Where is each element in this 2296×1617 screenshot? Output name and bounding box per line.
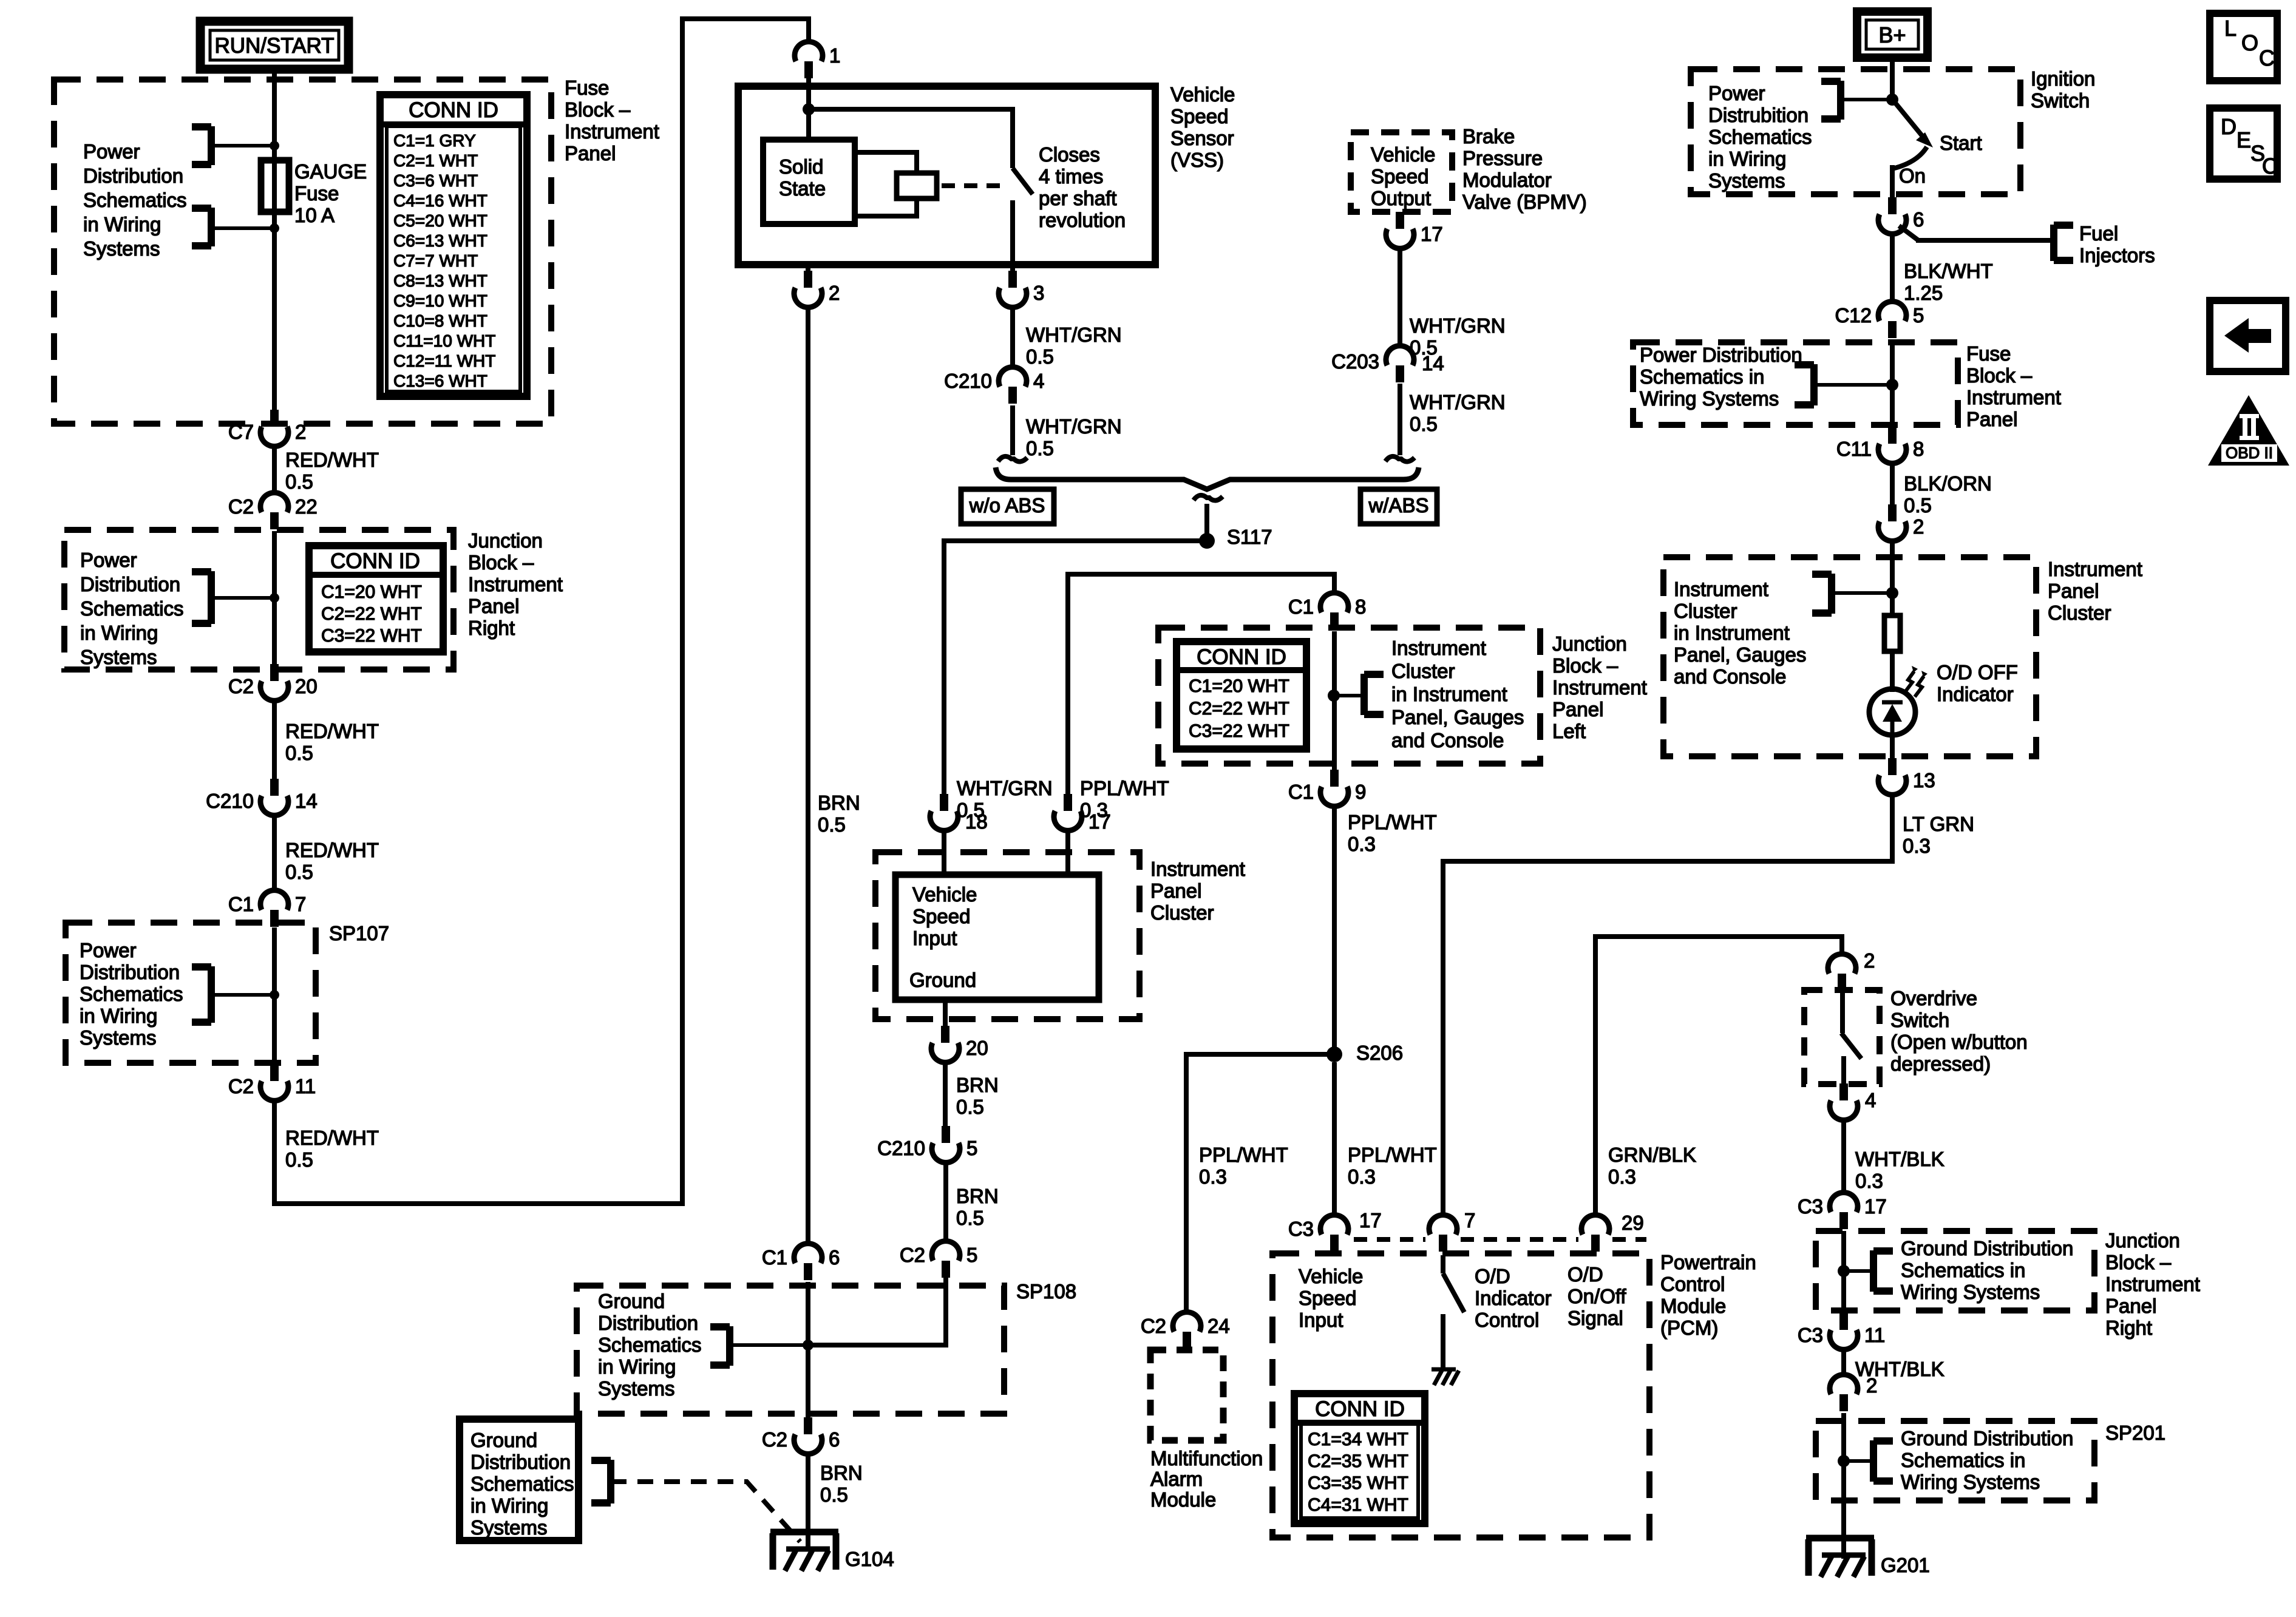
svg-text:Instrument: Instrument [2105, 1273, 2200, 1295]
svg-text:S206: S206 [1356, 1042, 1403, 1064]
svg-text:Fuse: Fuse [565, 76, 609, 99]
connector cluster pin 18 [930, 794, 988, 833]
svg-text:Panel: Panel [1966, 408, 2017, 430]
svg-text:and Console: and Console [1391, 729, 1504, 751]
connector C3 pin 17 (junction right) [1798, 1193, 1887, 1229]
wire label BLK/ORN 0.5 [1904, 472, 1992, 517]
svg-text:in Wiring: in Wiring [83, 213, 161, 236]
svg-text:O/D: O/D [1475, 1265, 1510, 1287]
connector C210 pin 14 [206, 779, 318, 815]
label Power Distribution Schematics (junction block) [80, 549, 184, 668]
label Brake Pressure Modulator Valve (BPMV) [1462, 125, 1587, 213]
fuse GAUGE 10 A [261, 160, 367, 226]
wire stub VSS pin2 [806, 265, 810, 274]
svg-text:9: 9 [1355, 781, 1366, 803]
wire label BRN 0.5 (1) [818, 792, 860, 836]
connector C3 pin 17 (PCM) [1288, 1215, 1348, 1252]
svg-text:C11: C11 [1836, 438, 1872, 460]
svg-text:Start: Start [1940, 132, 1982, 154]
connector C203 pin 14 [1331, 346, 1444, 382]
svg-text:0.5: 0.5 [285, 1148, 313, 1171]
wire C2-C210 [272, 700, 277, 782]
VSS coil [855, 152, 937, 216]
wire label WHT/GRN 0.5 (1) [1026, 324, 1122, 368]
wire C2-11 down right and up to VSS pin 1 [274, 19, 809, 1204]
svg-text:Multifunction: Multifunction [1150, 1447, 1263, 1470]
svg-text:On: On [1899, 164, 1926, 187]
wire VSS pin1 to solid state [806, 78, 811, 141]
fuse block - instrument panel dashed box [54, 80, 551, 424]
label Instrument Cluster in Instrument Panel Gauges and Console (right) [1674, 578, 1806, 688]
connector C11 pin 8 [1836, 427, 1924, 463]
svg-text:11: 11 [295, 1075, 316, 1097]
svg-text:C5=20 WHT: C5=20 WHT [393, 211, 487, 230]
svg-text:Control: Control [1660, 1273, 1725, 1295]
connector cluster pin 2 [1878, 504, 1924, 541]
svg-text:WHT/GRN: WHT/GRN [1026, 324, 1122, 346]
svg-text:Vehicle: Vehicle [1170, 83, 1235, 106]
connector C2 pin 11 [228, 1064, 316, 1100]
svg-text:Indicator: Indicator [1937, 683, 2014, 705]
svg-text:Block –: Block – [1552, 654, 1618, 677]
CONN ID table (fuse block) [380, 95, 527, 396]
svg-text:O/D OFF: O/D OFF [1937, 661, 2018, 683]
svg-text:Powertrain: Powertrain [1660, 1251, 1756, 1273]
svg-text:0.5: 0.5 [956, 1096, 984, 1118]
connector overdrive switch pin 2 [1828, 949, 1875, 991]
connector VSS pin 2 [794, 271, 840, 307]
svg-text:Speed: Speed [1170, 105, 1228, 127]
connector C3 pin 11 [1798, 1313, 1885, 1349]
svg-text:depressed): depressed) [1890, 1053, 1991, 1075]
svg-text:Indicator: Indicator [1475, 1287, 1552, 1309]
node cluster right [1886, 587, 1898, 599]
svg-text:4 times: 4 times [1039, 165, 1103, 188]
svg-text:O/D: O/D [1567, 1263, 1603, 1286]
svg-text:Panel: Panel [1150, 880, 1201, 902]
svg-text:Ignition: Ignition [2031, 67, 2095, 90]
wire RUN/START to fuse [272, 67, 277, 416]
label Power Distribution Schematics (fuse block right) [1640, 344, 1802, 410]
wire BPMV to C203 [1398, 248, 1402, 346]
svg-text:C210: C210 [944, 370, 992, 392]
wire S117 to cluster pin 18 [944, 541, 1207, 796]
svg-text:Power: Power [80, 939, 137, 961]
svg-text:C7=7 WHT: C7=7 WHT [393, 251, 478, 270]
pin label 29 (PCM) [1622, 1212, 1644, 1234]
svg-text:(Open w/button: (Open w/button [1890, 1031, 2028, 1053]
label Junction Block - Instrument Panel Right (lower) [2105, 1229, 2200, 1339]
svg-text:6: 6 [1913, 208, 1924, 231]
svg-text:Switch: Switch [1890, 1009, 1949, 1031]
svg-text:C2=22 WHT: C2=22 WHT [1189, 699, 1289, 719]
svg-text:BRN: BRN [820, 1462, 863, 1484]
svg-text:Control: Control [1475, 1309, 1539, 1331]
svg-text:Ground Distribution: Ground Distribution [1901, 1237, 2073, 1259]
svg-text:Signal: Signal [1567, 1307, 1623, 1329]
CONN ID table (junction block left) [1177, 642, 1306, 749]
connector C1 pin 7 [228, 890, 307, 927]
reference bracket (SP107) [192, 966, 274, 1023]
wire label RED/WHT 0.5 (2) [285, 720, 379, 764]
svg-text:C2=22 WHT: C2=22 WHT [321, 604, 422, 624]
svg-text:OBD II: OBD II [2226, 444, 2273, 462]
wire through SP107 [272, 927, 277, 1066]
junction block - instrument panel right dashed box [64, 530, 453, 670]
connector C2 pin 22 [228, 493, 318, 529]
wire C3-11 down [1841, 1349, 1846, 1375]
label O/D On/Off Signal [1567, 1263, 1626, 1329]
svg-text:in Wiring: in Wiring [80, 622, 158, 644]
svg-text:CONN ID: CONN ID [1315, 1397, 1405, 1421]
wire label PPL/WHT 0.3 (2) [1348, 811, 1437, 855]
wire C1-9 to S206 [1332, 806, 1337, 1054]
svg-text:RED/WHT: RED/WHT [285, 1127, 379, 1149]
ground G201 [1806, 1538, 1930, 1577]
svg-text:Speed: Speed [912, 905, 970, 927]
svg-text:BRN: BRN [956, 1074, 999, 1096]
ground G104 [770, 1532, 894, 1571]
svg-text:C6=13 WHT: C6=13 WHT [393, 231, 487, 250]
wire S206 to PCM pin 17 [1332, 1062, 1337, 1215]
svg-text:Speed: Speed [1371, 165, 1428, 188]
svg-text:GAUGE: GAUGE [294, 160, 367, 183]
svg-text:Ground Distribution: Ground Distribution [1901, 1427, 2073, 1449]
svg-text:17: 17 [1359, 1209, 1382, 1232]
svg-text:Wiring Systems: Wiring Systems [1901, 1471, 2040, 1493]
svg-text:SP108: SP108 [1016, 1280, 1076, 1303]
wire label PPL/WHT 0.3 (4) [1348, 1144, 1437, 1188]
reference bracket (cluster right) [1812, 574, 1892, 614]
svg-text:WHT/GRN: WHT/GRN [1410, 391, 1506, 413]
svg-text:24: 24 [1207, 1315, 1230, 1337]
svg-text:C210: C210 [206, 790, 254, 812]
svg-text:C7: C7 [228, 421, 254, 443]
svg-text:WHT/GRN: WHT/GRN [1026, 415, 1122, 438]
svg-text:BLK/WHT: BLK/WHT [1904, 260, 1993, 282]
vehicle speed output dashed box [1351, 132, 1452, 212]
svg-text:w/ABS: w/ABS [1368, 494, 1428, 517]
wire ignition to C12 [1890, 234, 1895, 302]
wire label LT GRN 0.3 [1903, 813, 1974, 857]
svg-text:Brake: Brake [1462, 125, 1515, 147]
svg-text:2: 2 [1913, 515, 1924, 538]
wire label WHT/BLK 0.3 [1855, 1148, 1944, 1192]
svg-text:C2: C2 [762, 1428, 787, 1451]
svg-text:2: 2 [1866, 1374, 1877, 1397]
wire C11 down [1890, 463, 1895, 507]
label Ground Distribution Schematics (SP201) [1901, 1427, 2073, 1493]
node VSS internal [803, 103, 815, 115]
label O/D Indicator Control [1475, 1265, 1552, 1331]
reference bracket (junction block left) [1334, 674, 1384, 715]
connector C1 pin 6 [762, 1244, 840, 1280]
svg-text:C4=31 WHT: C4=31 WHT [1308, 1495, 1408, 1515]
wire C7-C2 [272, 446, 277, 493]
label O/D OFF Indicator [1937, 661, 2018, 705]
svg-text:WHT/BLK: WHT/BLK [1855, 1148, 1944, 1170]
svg-text:Block –: Block – [1966, 364, 2033, 387]
svg-text:in Wiring: in Wiring [80, 1005, 157, 1027]
svg-text:Instrument: Instrument [565, 120, 659, 143]
svg-text:per shaft: per shaft [1039, 187, 1116, 209]
svg-text:C9=10 WHT: C9=10 WHT [393, 291, 487, 310]
svg-text:C2: C2 [900, 1244, 925, 1266]
svg-text:Systems: Systems [470, 1516, 548, 1539]
reference bracket Power Distribution (fuse block) [192, 126, 274, 246]
power tag B+ [1857, 12, 1927, 58]
svg-text:Vehicle: Vehicle [1299, 1265, 1363, 1287]
connector C7 pin 2 [228, 410, 307, 446]
connector C2 pin 20 [228, 664, 318, 700]
wire B+ to ignition [1890, 58, 1895, 100]
svg-text:Schematics: Schematics [83, 189, 187, 211]
svg-text:C1: C1 [762, 1246, 787, 1269]
wire pin20 to C210-5 [943, 1062, 948, 1127]
svg-text:Instrument: Instrument [1674, 578, 1768, 600]
svg-text:C3: C3 [1798, 1195, 1823, 1218]
svg-text:Systems: Systems [80, 1026, 157, 1049]
svg-text:Instrument: Instrument [2048, 558, 2142, 580]
VSS coil dashed link [942, 183, 1002, 188]
label Closes 4 times per shaft revolution [1039, 143, 1126, 231]
svg-text:CONN ID: CONN ID [1197, 645, 1286, 669]
svg-text:Cluster: Cluster [1674, 600, 1737, 622]
CONN ID table (PCM) [1294, 1394, 1425, 1524]
svg-text:18: 18 [965, 810, 988, 833]
svg-text:Schematics: Schematics [598, 1334, 702, 1356]
svg-text:C3=22 WHT: C3=22 WHT [321, 626, 422, 646]
svg-text:5: 5 [966, 1244, 977, 1266]
wire S206 to multifunction alarm module [1186, 1054, 1334, 1312]
svg-text:Schematics: Schematics [80, 597, 184, 620]
svg-text:C3: C3 [1798, 1324, 1823, 1346]
svg-text:0.3: 0.3 [1855, 1170, 1883, 1192]
svg-text:Panel: Panel [468, 595, 519, 617]
legend OBD II triangle [2208, 395, 2289, 466]
svg-text:Solid: Solid [779, 155, 823, 178]
svg-text:Input: Input [1299, 1309, 1343, 1331]
svg-text:(VSS): (VSS) [1170, 149, 1224, 171]
svg-text:Power: Power [83, 140, 140, 163]
overdrive switch blade [1841, 992, 1861, 1086]
PCM connector dashed line [1354, 1237, 1646, 1242]
svg-text:14: 14 [1422, 352, 1444, 375]
svg-text:PPL/WHT: PPL/WHT [1199, 1144, 1288, 1166]
connector pin 2 (SP201) [1830, 1374, 1877, 1411]
reference bracket (SP108) [710, 1326, 808, 1366]
wire C210-5 to C2-5 [943, 1162, 948, 1241]
wire through junction block [272, 531, 277, 664]
svg-text:Instrument: Instrument [1150, 858, 1245, 880]
svg-text:11: 11 [1864, 1324, 1885, 1346]
svg-text:C203: C203 [1331, 350, 1379, 373]
svg-text:Pressure: Pressure [1462, 147, 1543, 169]
svg-text:17: 17 [1864, 1195, 1887, 1218]
legend back arrow box [2210, 300, 2286, 371]
svg-text:in Instrument: in Instrument [1391, 683, 1507, 705]
svg-text:Fuse: Fuse [294, 182, 339, 205]
svg-text:Instrument: Instrument [1391, 637, 1486, 659]
svg-text:22: 22 [295, 495, 318, 518]
svg-text:C1=20 WHT: C1=20 WHT [321, 582, 422, 602]
ignition On contact [1892, 147, 1927, 187]
svg-text:w/o ABS: w/o ABS [969, 494, 1045, 517]
svg-text:in Wiring: in Wiring [1708, 147, 1786, 170]
svg-text:20: 20 [295, 675, 318, 697]
wire label PPL/WHT 0.3 (3) [1199, 1144, 1288, 1188]
svg-text:17: 17 [1421, 223, 1443, 245]
svg-text:Junction: Junction [2105, 1229, 2180, 1252]
svg-text:RED/WHT: RED/WHT [285, 449, 379, 471]
svg-text:Schematics in: Schematics in [1901, 1449, 2025, 1471]
svg-text:in Wiring: in Wiring [470, 1494, 548, 1517]
merge brace w/o ABS - w/ABS [996, 467, 1419, 534]
svg-text:C2=35 WHT: C2=35 WHT [1308, 1451, 1408, 1471]
connector C2 pin 5 [900, 1241, 978, 1278]
svg-text:Left: Left [1552, 720, 1586, 742]
svg-text:C1=20 WHT: C1=20 WHT [1189, 676, 1289, 696]
svg-text:Module: Module [1660, 1295, 1726, 1317]
wire label GRN/BLK 0.3 [1608, 1144, 1696, 1188]
svg-text:C210: C210 [877, 1137, 925, 1159]
svg-text:BRN: BRN [956, 1185, 999, 1207]
svg-text:C2: C2 [228, 675, 254, 697]
svg-text:C4=16 WHT: C4=16 WHT [393, 191, 487, 210]
svg-text:Schematics: Schematics [1708, 126, 1812, 148]
label Power Distrubition Schematics (ignition) [1708, 82, 1812, 192]
wire VSS pin3 down [1010, 307, 1015, 367]
powertrain control module PCM dashed box [1272, 1253, 1649, 1537]
svg-text:C2: C2 [1141, 1315, 1166, 1337]
svg-text:C1: C1 [1288, 781, 1314, 803]
svg-text:8: 8 [1355, 595, 1366, 618]
wire overdrive to C3-17 [1841, 1120, 1846, 1193]
svg-text:Block –: Block – [565, 98, 631, 121]
splice S117 [1199, 526, 1272, 549]
svg-text:C1=1 GRY: C1=1 GRY [393, 131, 476, 150]
label Fuel Injectors [2079, 222, 2155, 266]
wire label WHT/GRN 0.5 (5) [957, 777, 1053, 821]
svg-text:Fuse: Fuse [1966, 342, 2011, 365]
svg-text:6: 6 [829, 1428, 840, 1451]
connector C210 pin 5 [877, 1126, 977, 1162]
svg-text:Modulator: Modulator [1462, 169, 1552, 191]
svg-text:Valve (BPMV): Valve (BPMV) [1462, 191, 1587, 213]
svg-text:Panel: Panel [2048, 580, 2099, 602]
svg-text:Panel: Panel [565, 142, 616, 164]
instrument panel cluster (right) dashed box [1663, 557, 2036, 756]
label Overdrive Switch (Open w/button depressed) [1890, 987, 2028, 1075]
label Junction Block - Instrument Panel Right [468, 529, 563, 639]
wire label WHT/GRN 0.5 (3) [1410, 314, 1506, 359]
reference bracket (ground distribution) [591, 1460, 611, 1503]
svg-text:0.5: 0.5 [818, 813, 846, 836]
svg-text:Output: Output [1371, 187, 1431, 209]
svg-text:2: 2 [295, 421, 306, 443]
svg-text:Power: Power [80, 549, 137, 571]
svg-text:L: L [2224, 16, 2237, 41]
wire C2-6 to G104 [806, 1454, 810, 1551]
label Vehicle Speed Sensor (VSS) [1170, 83, 1235, 171]
option box w/o ABS [961, 489, 1054, 524]
svg-text:20: 20 [966, 1037, 988, 1059]
svg-text:0.5: 0.5 [820, 1483, 848, 1506]
wire to fuel injectors [1899, 225, 2073, 261]
svg-text:4: 4 [1865, 1089, 1876, 1111]
node fuse top [270, 141, 279, 151]
legend LOC box [2210, 13, 2277, 81]
pin label 17 (PCM) [1359, 1209, 1382, 1232]
svg-text:D: D [2221, 114, 2237, 139]
multifunction alarm module dashed box [1150, 1350, 1223, 1440]
connector C210 pin 4 [944, 367, 1044, 404]
svg-text:0.5: 0.5 [285, 861, 313, 883]
svg-text:Panel, Gauges: Panel, Gauges [1391, 706, 1524, 728]
svg-text:BLK/ORN: BLK/ORN [1904, 472, 1992, 495]
svg-text:Distribution: Distribution [80, 573, 180, 595]
svg-text:C3=6 WHT: C3=6 WHT [393, 171, 478, 190]
svg-text:Distrubition: Distrubition [1708, 104, 1809, 126]
wire label WHT/GRN 0.5 (4) [1410, 391, 1506, 435]
svg-text:1: 1 [829, 44, 840, 67]
wire through junction right [1841, 1231, 1846, 1315]
label Ground Distribution Schematics (SP108) [598, 1290, 702, 1400]
connector ignition pin 6 [1878, 197, 1924, 234]
svg-text:Closes: Closes [1039, 143, 1100, 166]
svg-text:S117: S117 [1227, 526, 1272, 548]
wire cluster pin17 up to C1-8 [1068, 574, 1334, 875]
ignition switch blade to Start [1894, 101, 1982, 154]
svg-text:Instrument: Instrument [1552, 676, 1647, 699]
CONN ID table (junction block right) [309, 546, 443, 652]
svg-text:C: C [2262, 154, 2278, 178]
wire C210-4 to brace [998, 405, 1027, 462]
svg-text:29: 29 [1622, 1212, 1644, 1234]
node junction block left [1328, 690, 1340, 702]
svg-text:Sensor: Sensor [1170, 127, 1234, 149]
connector overdrive switch pin 4 [1830, 1083, 1876, 1120]
wire label BRN 0.5 (2) [956, 1074, 999, 1118]
svg-text:SP107: SP107 [329, 922, 389, 944]
connector cluster pin 20 [931, 1026, 988, 1062]
svg-text:Right: Right [2105, 1317, 2152, 1339]
svg-text:On/Off: On/Off [1567, 1285, 1626, 1307]
resistor (cluster) [1884, 615, 1900, 651]
svg-text:Block –: Block – [2105, 1251, 2172, 1273]
svg-text:Input: Input [912, 927, 957, 949]
svg-text:C: C [2259, 46, 2275, 70]
svg-text:Junction: Junction [1552, 632, 1627, 655]
svg-text:PPL/WHT: PPL/WHT [1080, 777, 1169, 799]
wire C203 to brace [1385, 384, 1415, 462]
label Multifunction Alarm Module [1150, 1447, 1263, 1511]
svg-text:O: O [2241, 30, 2258, 55]
power tag RUN/START [200, 21, 348, 69]
svg-text:10 A: 10 A [294, 204, 335, 226]
node ignition [1886, 93, 1898, 106]
svg-text:Systems: Systems [83, 237, 160, 260]
svg-text:RUN/START: RUN/START [214, 34, 334, 58]
wire VSS internal to switch [809, 109, 1013, 168]
wire through SP201 [1841, 1413, 1846, 1559]
svg-text:Wiring Systems: Wiring Systems [1640, 387, 1779, 410]
label Instrument Panel Cluster [1150, 858, 1245, 924]
svg-text:E: E [2237, 127, 2251, 152]
svg-text:Module: Module [1150, 1488, 1216, 1511]
svg-text:Schematics: Schematics [80, 983, 183, 1005]
legend DESC box [2210, 108, 2278, 179]
